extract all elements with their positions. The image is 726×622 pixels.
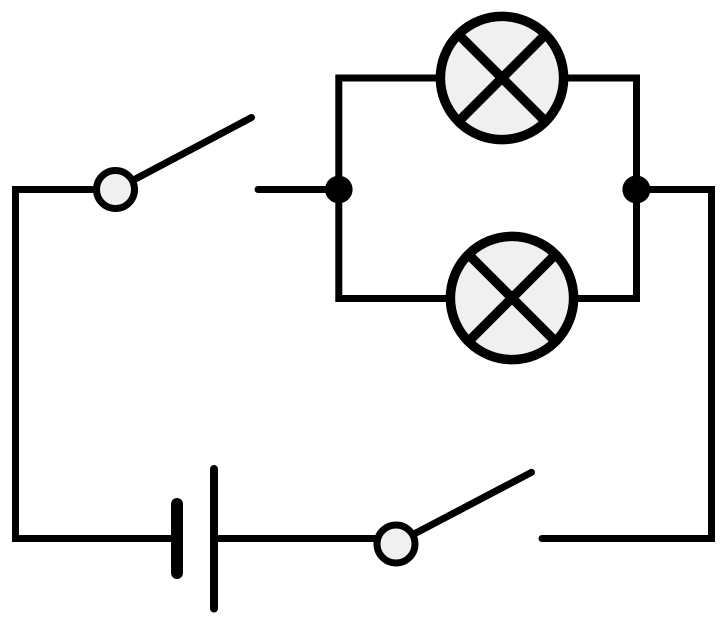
switch S2 lever [415, 472, 532, 533]
wire: stub from switch S1 fixed contact to node A [258, 186, 340, 193]
lamp L2 [450, 236, 573, 359]
battery plate short (negative) [171, 504, 183, 573]
node B junction dot [622, 176, 650, 204]
battery plate long (positive) [210, 469, 218, 609]
switch S1 lever [135, 118, 252, 180]
node A junction dot [325, 176, 353, 204]
switch S2 pivot circle [377, 525, 415, 563]
wire: battery positive plate to switch S2 [214, 535, 380, 542]
switch S1 pivot circle [97, 171, 135, 209]
wire: parallel branch rectangle [339, 78, 637, 299]
lamp L1 [440, 16, 563, 139]
wire: right loop (node B down and to switch S2 fixed contact) [542, 190, 712, 539]
wire: left loop (switch S1 to battery negative plate) [16, 190, 173, 539]
